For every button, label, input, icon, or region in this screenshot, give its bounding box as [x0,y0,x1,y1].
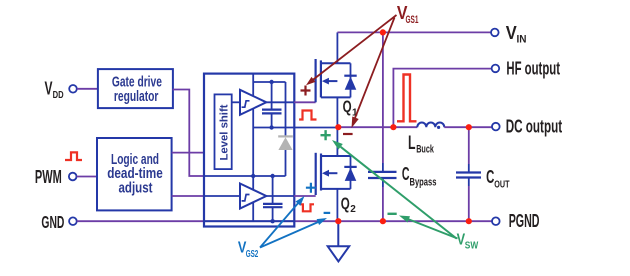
driver IC box U1 [204,74,294,227]
low side supply rail [204,175,286,177]
buffer B (low side) [240,184,266,209]
level shift block [215,94,232,169]
wire HF output tap [393,69,491,128]
junction dot Q2 source / ground [335,218,341,224]
decoupling capacitor low side [263,176,283,221]
svg-text:Q: Q [343,97,352,116]
internal supply vertical rail [252,74,254,222]
svg-text:Q: Q [341,194,350,213]
terminal PWM [35,167,77,187]
capacitor C_OUT [456,127,510,221]
wire logic pin2 inside box to buffer B [204,195,240,197]
svg-text:C: C [402,163,410,184]
junction dot VIN/C_Bypass [380,29,386,35]
svg-text:SW: SW [465,240,479,251]
svg-text:IN: IN [517,34,527,46]
V_GS2 plus sign [306,183,316,193]
terminal PGND [492,211,540,231]
inductor L_Buck [408,122,444,155]
svg-text:GND: GND [41,212,64,232]
buffer A (high side) [240,90,266,115]
wire inductor to DC output [444,126,492,128]
svg-text:L: L [408,133,416,154]
transistor Q2 [316,127,357,221]
bootstrap diode (gray) [278,82,293,176]
label V_GS1 with arrows [306,3,419,128]
bootstrap capacitor high side [262,82,282,128]
ground rail segment inside driver box [204,220,294,222]
svg-text:adjust: adjust [119,179,153,196]
wire buffer A output to Q1 gate [266,101,294,103]
junction dot switch node [335,124,341,130]
svg-text:OUT: OUT [494,179,510,191]
wire switch-node rail inside box [253,127,338,129]
PWM input pulse waveform [65,152,82,160]
svg-text:DC output: DC output [506,117,562,137]
V_GS2 minus sign [324,212,331,214]
block logic and dead-time adjust [97,138,172,210]
terminal VDD [45,77,77,101]
wire GND rail to PGND [77,220,492,222]
V_SW plus sign [321,130,331,140]
wire VDD to regulator [77,88,98,90]
junction dot DC/C_OUT [466,124,472,130]
wire logic pin2 to lower buffer [172,195,204,197]
wire VIN rail [337,31,491,33]
wire switch node rail to inductor [338,126,417,128]
svg-text:DD: DD [53,89,64,101]
transistor Q1 [316,32,358,127]
svg-text:HF output: HF output [506,59,560,79]
ground symbol [328,221,350,261]
V_GS1 minus sign [343,133,353,135]
svg-text:V: V [506,23,517,43]
HF switching pulse waveform [397,75,417,122]
svg-text:GS2: GS2 [246,249,259,260]
V_GS1 plus sign [301,86,311,96]
label V_SW with arrows [332,140,479,251]
wire PWM to logic box [77,176,98,178]
wire regulator to driver box [173,90,205,177]
svg-text:2: 2 [350,204,356,215]
terminal DC output [492,117,562,137]
wire level shift to buffer A [232,101,240,103]
capacitor C_Bypass [368,32,436,221]
wire buffer B output to Q2 gate [266,195,294,197]
junction dot HF tap [390,124,396,130]
junction dot C_Bypass / ground [380,218,386,224]
label V_GS2 with arrows [238,196,327,260]
terminal GND [41,212,76,232]
junction dot C_OUT / ground [466,218,472,224]
junction dots inside driver box [269,80,273,84]
svg-text:GS1: GS1 [406,14,419,26]
svg-text:PWM: PWM [35,167,62,187]
block gate drive regulator [98,69,173,108]
svg-text:PGND: PGND [509,211,540,231]
svg-text:C: C [486,167,494,187]
svg-text:Level shift: Level shift [218,104,230,160]
svg-text:Buck: Buck [416,144,434,156]
svg-text:regulator: regulator [114,88,159,105]
wire logic pin1 to driver box [172,152,204,154]
Q1 gate pulse waveform [299,111,316,120]
terminal VIN [491,23,527,46]
terminal HF output [492,59,560,79]
V_SW minus sign [388,213,397,215]
svg-text:Bypass: Bypass [410,177,437,189]
Q2 gate pulse waveform (inverted) [300,204,315,211]
